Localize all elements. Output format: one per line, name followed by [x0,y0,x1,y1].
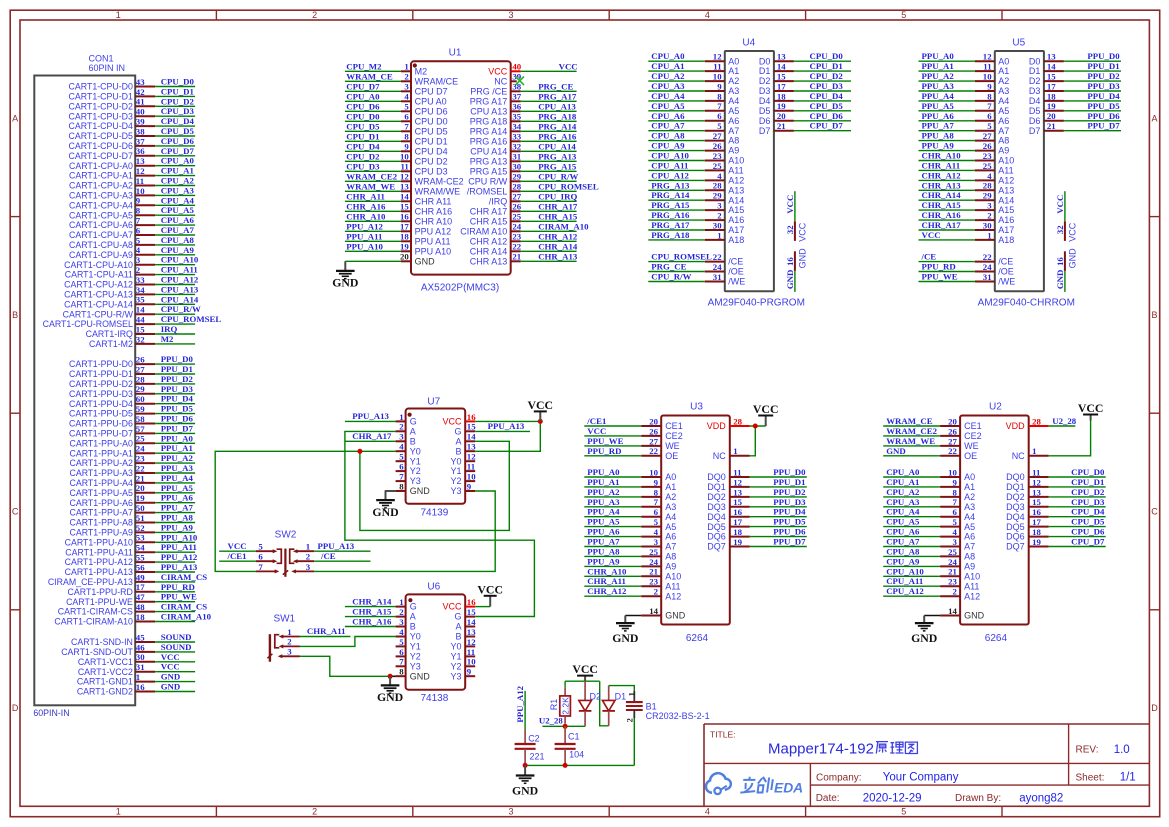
pin 5 (A5) [641,517,676,532]
svg-text:D4: D4 [1029,96,1041,106]
svg-text:PRG_CE: PRG_CE [538,81,573,91]
svg-text:25: 25 [713,161,722,171]
pin 11 (CART1-CPU-A2) [69,176,155,191]
wire net CPU_A4 (CON1 pin 9) [155,204,195,206]
wire net CPU_D3 [345,170,401,172]
svg-text:CART1-CPU-A13: CART1-CPU-A13 [64,290,133,300]
svg-text:GND: GND [410,486,431,496]
wire net CPU_A8 (CON1 pin 5) [155,244,195,246]
svg-text:PPU_D5: PPU_D5 [1087,101,1120,111]
svg-text:CART1-CPU-A14: CART1-CPU-A14 [64,299,133,309]
svg-text:/WE: /WE [728,277,745,287]
wire net CPU_A12 [648,179,705,181]
wire GND (U1 pin 20) [345,260,401,262]
svg-text:A12: A12 [665,591,681,601]
svg-text:PRG /CE: PRG /CE [470,86,507,96]
svg-text:7: 7 [987,101,992,111]
wire net PPU_D1 (CON1 pin 27) [155,373,195,375]
pin 16 (DQ4) [707,507,750,522]
svg-text:CPU_ROMSEL: CPU_ROMSEL [651,252,712,262]
svg-text:GND: GND [1067,248,1077,269]
wire net CPU_D6 [345,110,401,112]
wire net CHR_A10 [584,575,641,577]
svg-text:3: 3 [508,10,513,20]
svg-text:48: 48 [136,602,145,612]
svg-text:49: 49 [136,572,145,582]
svg-text:PPU_A5: PPU_A5 [922,101,955,111]
svg-text:CPU_D4: CPU_D4 [810,91,844,101]
ground symbol (U2 pin 14) [911,616,937,645]
wire net PPU_D4 (CON1 pin 60) [155,403,195,405]
svg-text:DQ5: DQ5 [1006,522,1025,532]
svg-text:WE: WE [665,441,680,451]
svg-text:PPU_A0: PPU_A0 [587,467,620,477]
svg-text:G: G [454,612,461,622]
svg-text:13: 13 [467,442,476,452]
svg-text:CART1-PPU-D1: CART1-PPU-D1 [69,369,133,379]
svg-text:PRG_A18: PRG_A18 [538,111,577,121]
svg-text:VCC: VCC [442,417,462,427]
svg-text:23: 23 [136,454,145,464]
svg-text:45: 45 [136,632,145,642]
svg-text:16: 16 [785,257,795,266]
pin 22 (/CE) [975,252,1014,267]
svg-text:16: 16 [733,507,742,517]
pin 8 (CART1-CPU-A5) [69,206,155,221]
svg-text:20: 20 [1047,111,1056,121]
svg-text:DQ5: DQ5 [707,522,726,532]
pin 21 (A10) [940,567,980,582]
wire net CPU_A9 [648,150,705,152]
pin 1 [293,542,314,554]
svg-text:13: 13 [136,156,145,166]
wire net CPU_A10 [648,160,705,162]
pin 20 (D6) [759,111,794,126]
svg-text:Y0: Y0 [410,632,421,642]
wire net U2_28 [542,725,585,727]
pin 24 (CIRAM A10) [460,222,522,237]
pin 3 (CPU D7) [401,82,448,97]
svg-text:A6: A6 [964,532,975,542]
wire D1 to battery pin 1 [609,686,635,691]
wire net CPU_A0 [883,476,940,478]
wire net CPU_D1 [345,140,401,142]
svg-text:21: 21 [777,121,786,131]
pin 14 (D1) [759,62,794,77]
wire GND (U3 pin 14) [625,615,641,617]
svg-text:CART1-PPU-D7: CART1-PPU-D7 [69,429,133,439]
junction (U7 pin 4 branch) [357,449,362,454]
svg-text:CHR_A16: CHR_A16 [346,201,386,211]
svg-text:1: 1 [717,230,721,240]
svg-text:15: 15 [1047,72,1056,82]
svg-text:A: A [455,622,461,632]
pin 11 (DQ0) [1006,467,1049,482]
wire net PPU_RD (CON1 pin 17) [155,591,195,593]
svg-text:25: 25 [649,547,658,557]
svg-text:12: 12 [733,477,742,487]
svg-text:G: G [410,417,417,427]
svg-text:A14: A14 [998,195,1014,205]
svg-text:Y3: Y3 [410,476,421,486]
svg-text:9: 9 [467,667,472,677]
svg-text:CHR_A15: CHR_A15 [538,211,578,221]
pin 12 (Y0) [450,452,476,467]
pin 4 (A6) [641,527,676,542]
wire net WRAM_CE [345,80,401,82]
svg-text:A7: A7 [998,126,1009,136]
svg-text:16: 16 [467,412,476,422]
pin 16 (CHR A10) [400,212,452,227]
svg-text:DQ0: DQ0 [1006,472,1025,482]
svg-text:CART1-GND2: CART1-GND2 [77,687,133,697]
svg-text:CPU R/W: CPU R/W [468,176,508,186]
svg-text:D6: D6 [1029,116,1041,126]
wire net PPU_A11 [345,240,401,242]
svg-text:/IRQ: /IRQ [489,196,508,206]
svg-text:17: 17 [777,81,786,91]
svg-text:CPU A14: CPU A14 [470,146,507,156]
svg-text:PRG A14: PRG A14 [470,126,508,136]
svg-text:A9: A9 [728,146,739,156]
pin 18 (D4) [1029,91,1064,106]
wire net CIRAM_A10 (CON1 pin 18) [155,621,195,623]
svg-text:A8: A8 [728,136,739,146]
svg-text:D5: D5 [1029,106,1041,116]
title block [704,724,1149,806]
wire net CHR_A11 [584,585,641,587]
svg-text:PPU_A3: PPU_A3 [587,497,620,507]
svg-text:WRAM_CE2: WRAM_CE2 [346,171,397,181]
svg-text:43: 43 [136,77,145,87]
wire net PPU_A6 [919,120,975,122]
svg-text:PPU_WE: PPU_WE [161,592,197,602]
svg-text:CE1: CE1 [665,421,683,431]
svg-text:CPU_A11: CPU_A11 [651,160,688,170]
wire net CPU_A6 [883,536,940,538]
pin 17 (DQ5) [707,517,750,532]
title CJK 原理图 [876,742,917,754]
svg-text:CPU_D1: CPU_D1 [346,131,379,141]
wire net PPU_D5 (CON1 pin 59) [155,413,195,415]
pin 28 (A13) [975,181,1015,196]
svg-text:4: 4 [705,10,710,20]
svg-text:PRG A13: PRG A13 [470,156,508,166]
pin 2 (A16) [975,211,1015,226]
ground symbol (battery circuit) [512,765,538,797]
pin 17 (D3) [759,81,794,96]
svg-text:21: 21 [512,252,521,262]
svg-text:M2: M2 [161,334,174,344]
svg-text:4: 4 [404,92,409,102]
svg-text:12: 12 [467,452,476,462]
wire net PPU_A9 [584,565,641,567]
svg-text:1: 1 [987,230,991,240]
svg-text:PPU_A4: PPU_A4 [161,473,194,483]
svg-text:A2: A2 [665,492,676,502]
wire net CIRAM_CS (CON1 pin 48) [155,611,195,613]
pin 17 (PPU A12) [400,222,451,237]
wire net PPU_A11 (CON1 pin 54) [155,551,195,553]
wire net CPU_A10 (CON1 pin 3) [155,264,195,266]
pin 12 (A0) [975,52,1010,67]
svg-text:37: 37 [136,136,145,146]
svg-text:CART1-PPU-D5: CART1-PPU-D5 [69,409,133,419]
svg-text:WRAM_CE: WRAM_CE [346,71,393,81]
svg-text:PPU_D1: PPU_D1 [1087,61,1119,71]
pin 15 (D2) [759,72,794,87]
wire net /CE [919,261,975,263]
svg-text:A15: A15 [728,205,744,215]
svg-text:20: 20 [649,416,658,426]
pin 27 (A8) [705,131,740,146]
svg-text:A7: A7 [728,126,739,136]
svg-text:25: 25 [136,434,145,444]
svg-text:36: 36 [512,102,521,112]
pin 33 (PRG A16) [470,132,522,147]
svg-text:12: 12 [467,637,476,647]
svg-text:A11: A11 [998,166,1013,176]
pin 23 (CHR A12) [470,232,522,247]
svg-text:104: 104 [569,749,584,759]
switch SW1 [267,613,300,661]
svg-text:ayong82: ayong82 [1019,793,1063,805]
power pin 32 VCC (U4) [785,221,808,241]
pin 10 (A2) [705,72,740,87]
pin 31 (/WE) [975,272,1016,287]
svg-text:CPU_A3: CPU_A3 [651,81,685,91]
power pin 32 VCC (U5) [1055,221,1078,241]
svg-text:D3: D3 [759,86,771,96]
svg-text:PPU_A10: PPU_A10 [161,532,198,542]
wire net PPU_A8 (CON1 pin 51) [155,522,195,524]
svg-text:A18: A18 [728,235,744,245]
svg-text:9: 9 [654,477,659,487]
svg-text:PPU_A2: PPU_A2 [922,71,955,81]
IC U3 (6264) [641,401,750,644]
svg-text:CHR_A17: CHR_A17 [922,220,962,230]
svg-text:11: 11 [983,62,991,72]
svg-text:CHR A16: CHR A16 [415,206,453,216]
svg-text:CHR A10: CHR A10 [415,216,453,226]
wire net CIRAM_CS (CON1 pin 49) [155,581,195,583]
svg-text:54: 54 [136,543,145,553]
svg-text:CPU D0: CPU D0 [415,116,448,126]
svg-text:42: 42 [136,87,145,97]
wire net VCC (U7 pin 16) [475,420,540,422]
pin 1 (G) [396,597,417,612]
svg-text:CPU_D2: CPU_D2 [1071,487,1105,497]
svg-text:23: 23 [512,232,521,242]
wire net CPU_A7 (CON1 pin 6) [155,234,195,236]
svg-text:16: 16 [1032,507,1041,517]
wire U7 pin9 Y3 to SW2 pin3 [314,491,495,571]
svg-text:DQ4: DQ4 [1006,512,1025,522]
pin 36 (CPU A13) [470,102,522,117]
junction (R1 / C1 / U2_28) [563,724,568,729]
pin 4 (CPU A0) [401,92,447,107]
svg-text:18: 18 [400,232,409,242]
pin 23 (CART1-PPU-A2) [70,454,156,469]
svg-text:PPU_A7: PPU_A7 [922,121,955,131]
pin 18 (DQ6) [707,527,750,542]
svg-text:PPU_D3: PPU_D3 [773,497,806,507]
pin 15 (CHR A16) [400,202,452,217]
pin 8 (GND) [396,481,431,496]
svg-text:PPU_A6: PPU_A6 [587,527,620,537]
svg-text:PRG A17: PRG A17 [470,96,508,106]
svg-text:3: 3 [717,201,722,211]
svg-text:2: 2 [399,607,404,617]
pin 8 (A4) [975,91,1010,106]
svg-text:CART1-CPU-D6: CART1-CPU-D6 [69,141,133,151]
svg-text:CPU_M2: CPU_M2 [346,61,382,71]
wire net CPU_D2 [345,160,401,162]
wire net CHR_A17 (U1 pin 26) [521,210,577,212]
wire net PPU_RD [919,271,975,273]
svg-text:A9: A9 [665,562,676,572]
svg-text:5: 5 [901,806,906,816]
pin 4 (Y0) [396,442,421,457]
svg-text:PRG_A18: PRG_A18 [651,230,690,240]
wire net PPU_D1 [1064,70,1121,72]
svg-text:A2: A2 [964,492,975,502]
svg-text:PRG A15: PRG A15 [470,166,508,176]
svg-text:CPU_A9: CPU_A9 [161,245,195,255]
svg-text:CON1: CON1 [89,54,114,64]
svg-text:18: 18 [136,612,145,622]
svg-text:37: 37 [512,92,521,102]
svg-text:CPU_D7: CPU_D7 [346,81,380,91]
svg-text:GND: GND [964,611,985,621]
wire net CPU_A2 [648,80,705,82]
svg-text:29: 29 [136,384,145,394]
svg-text:CPU D1: CPU D1 [415,136,448,146]
pin 18 (PPU A11) [400,232,450,247]
pin 25 (A8) [940,547,975,562]
svg-text:CHR_A11: CHR_A11 [587,576,626,586]
wire net PPU_A0 (CON1 pin 25) [155,442,195,444]
svg-text:3: 3 [399,432,404,442]
svg-text:WRAM_CE2: WRAM_CE2 [886,426,937,436]
svg-text:/OE: /OE [728,267,744,277]
svg-text:CART1-PPU-A7: CART1-PPU-A7 [70,508,133,518]
svg-text:CART1-CIRAM-A10: CART1-CIRAM-A10 [54,617,133,627]
svg-text:CPU_A5: CPU_A5 [651,101,685,111]
pin 8 (A4) [705,91,740,106]
wire net PRG_A17 [648,229,705,231]
pin 45 (CART1-SND-IN) [71,632,155,647]
svg-text:CART1-CPU-D7: CART1-CPU-D7 [69,151,133,161]
svg-text:CART1-VCC2: CART1-VCC2 [78,667,133,677]
wire GND bus [525,764,634,766]
svg-text:AM29F040-CHRROM: AM29F040-CHRROM [978,298,1075,309]
svg-text:Y3: Y3 [450,486,461,496]
pin 7 (A5) [975,101,1010,116]
pin 59 (CART1-PPU-D5) [69,404,155,419]
pin 13 (D0) [1029,52,1064,67]
svg-text:GND: GND [410,671,431,681]
svg-text:A11: A11 [964,581,979,591]
svg-text:5: 5 [717,121,722,131]
wire net CPU_D5 (U2) [1049,526,1106,528]
svg-text:IRQ: IRQ [161,324,178,334]
wire net CHR_A11 [919,169,975,171]
svg-text:OE: OE [964,451,977,461]
svg-text:CPU_A0: CPU_A0 [346,91,380,101]
wire net CPU_D2 (U2) [1049,496,1106,498]
svg-text:41: 41 [136,97,145,107]
svg-text:VCC: VCC [1055,195,1065,214]
svg-text:PRG_CE: PRG_CE [651,262,686,272]
pin 6 [256,552,277,564]
svg-text:/CE: /CE [320,551,336,561]
svg-text:A4: A4 [964,512,975,522]
svg-text:47: 47 [136,592,145,602]
wire net PPU_A2 [584,496,641,498]
svg-text:CPU_A9: CPU_A9 [651,141,685,151]
svg-text:24: 24 [983,262,992,272]
junction (U6 pin 8 / SW1) [388,674,393,679]
svg-text:CHR_A13: CHR_A13 [538,251,578,261]
svg-text:25: 25 [512,212,521,222]
svg-text:CPU_A7: CPU_A7 [651,121,685,131]
svg-text:74138: 74138 [420,693,448,704]
svg-text:CART1-GND1: CART1-GND1 [77,677,133,687]
svg-text:CPU_D4: CPU_D4 [1071,507,1105,517]
wire net CPU_D7 [794,130,851,132]
svg-text:PPU_A0: PPU_A0 [922,51,955,61]
svg-text:CART1-PPU-A1: CART1-PPU-A1 [70,448,133,458]
svg-text:4: 4 [717,171,722,181]
pin 26 (CHR A17) [470,202,522,217]
svg-text:A3: A3 [964,502,975,512]
pin 25 (A11) [705,161,744,176]
svg-text:A16: A16 [998,215,1014,225]
svg-text:31: 31 [512,152,521,162]
svg-text:CR2032-BS-2-1: CR2032-BS-2-1 [646,711,710,721]
svg-text:51: 51 [136,513,145,523]
svg-text:5: 5 [654,517,659,527]
svg-text:4: 4 [399,442,404,452]
svg-text:34: 34 [512,122,521,132]
ground symbol (U7 pin 8) [372,491,398,519]
svg-text:DQ7: DQ7 [1006,542,1025,552]
svg-text:DQ1: DQ1 [1006,482,1025,492]
svg-text:CPU_A3: CPU_A3 [886,497,920,507]
svg-text:CE2: CE2 [964,431,982,441]
svg-text:22: 22 [649,446,658,456]
svg-text:B: B [455,632,461,642]
svg-text:CART1-PPU-D6: CART1-PPU-D6 [69,419,133,429]
pin 12 (WRAM-CE2) [400,172,464,187]
pin 26 (A9) [705,141,740,156]
wire battery pin2 to GND bus [633,718,635,765]
wire net WRAM_WE [345,190,401,192]
svg-text:PPU_A5: PPU_A5 [587,517,620,527]
wire net SOUND (CON1 pin 45) [155,641,195,643]
svg-text:CHR A11: CHR A11 [415,196,452,206]
pin 26 (CART1-PPU-D0) [69,355,155,370]
svg-text:CPU_R/W: CPU_R/W [161,304,201,314]
pin 18 (D4) [759,91,794,106]
pin 9 (Y3) [450,481,475,496]
svg-text:CART1-CPU-A10: CART1-CPU-A10 [64,260,133,270]
power symbol VCC (U6) [477,582,503,606]
wire GND (U6 pin 8) [390,675,396,677]
svg-text:2: 2 [624,718,634,722]
svg-text:DQ3: DQ3 [1006,502,1025,512]
